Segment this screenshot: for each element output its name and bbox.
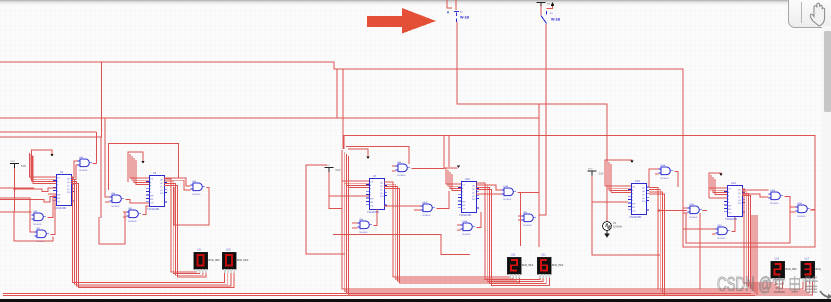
nand gate U8B (522, 212, 537, 227)
wire: U4 output bus down to display U9 (164, 179, 206, 277)
counter U13 74LS160 (628, 179, 649, 219)
wire: U14 input bus (left) (709, 175, 727, 198)
wire: U1 output bus down to display U10 (71, 177, 234, 288)
wire: right loop from U16B output down to hours carry (683, 210, 815, 247)
wire: U13 feedback loop with junction arrow (605, 160, 634, 186)
nand gate U6A (191, 180, 206, 196)
wire: group2 bus down joining long bottom bus to hours section (342, 156, 757, 295)
counter U7 74LS160 (366, 174, 387, 214)
wire: U11A connections (384, 191, 449, 210)
counter U1 74LS160 (53, 170, 74, 210)
wire: U8B connections (518, 216, 522, 220)
nand gate U16B (796, 203, 811, 218)
nand gate U5A (110, 192, 125, 208)
wire: left edge stub into gate U2A (0, 187, 34, 189)
wire: U7 input bus (left) (342, 150, 369, 188)
wire: loop below group 2 (333, 235, 470, 255)
wire: vertical drop x=337 (336, 69, 338, 118)
wire: long bottom bus (3, 293, 755, 295)
counter U4 74LS160 (146, 171, 167, 211)
switch S2 (SPDT) with actuation arrow (541, 2, 561, 24)
wire: U10 feedback loop with junction arrow (444, 136, 460, 168)
nand gate U12A (461, 220, 476, 236)
power VCC V2 (group 2) (306, 165, 369, 254)
display U17 (digit 3) (801, 258, 828, 283)
wire: U10 output bus down to display U12 (476, 183, 549, 286)
power VCC V1 (group 1) (10, 161, 26, 211)
counter U10 74LS160 (458, 177, 479, 217)
nand gate U3A (78, 156, 93, 172)
power VCC for switch S2 (537, 3, 551, 16)
wire: U15B connections (683, 208, 707, 289)
wire: U15C connections (712, 216, 735, 234)
nand gate U15B (688, 204, 703, 219)
wire: long horizontal net y=135.5 to far right gate (344, 136, 815, 211)
wire: U7 output bus down to display U11 (384, 182, 519, 283)
switch S1 (SPST key) (447, 0, 470, 22)
wire: U15A connections (649, 169, 678, 187)
wire: switch S2 output down to gate U8B (539, 24, 546, 215)
nand gate U15C (716, 225, 731, 240)
wire: U13 output bus down and right to display U17 (649, 187, 812, 294)
wire: U1 input bus (left) (30, 153, 57, 184)
wire: U4 output bus to gate U6A and loop (164, 178, 209, 225)
clock source V4 10Hz (603, 222, 623, 231)
wire: left edge stub into gate U2B (0, 198, 37, 232)
nand gate U15A (659, 164, 674, 180)
annotation: big red arrow (367, 8, 436, 34)
wire: U14 feedback loop with junction arrow (709, 173, 723, 198)
display U10 (digit 0) (222, 249, 249, 274)
power VCC V3 (group 4) (588, 169, 661, 256)
nand gate U16A (769, 189, 784, 205)
wire: U13 input bus (left) (605, 160, 631, 193)
wire: U14 output bus down to display U16 (742, 189, 782, 289)
nand gate U5B (127, 208, 142, 223)
nand gate U9A (358, 218, 373, 234)
wire: vertical drop x=101.5 from top net, to left horizontal (0, 62, 102, 218)
ground arrow for clock source (604, 231, 610, 238)
wire: U4 feedback loop with junction arrow (128, 152, 145, 182)
nand gate U2A (32, 210, 47, 226)
wire: U12A connections (457, 212, 481, 230)
wire: U16B connections (790, 207, 815, 212)
wire: switch S1 output down to clock select bus (457, 22, 607, 221)
wire: U4 input bus (left) (130, 154, 149, 185)
nand gate U2B (35, 228, 50, 243)
display U12 (digit 6) (537, 254, 564, 279)
wire: U5B connections (99, 206, 149, 244)
wire: feedback box around U4 (109, 144, 179, 191)
display U11 (digit 2) (507, 254, 534, 279)
wire: horizontal net y=118 (0, 117, 539, 119)
wire: U13A connections (476, 185, 539, 194)
display U9 (digit 0) (194, 249, 221, 274)
wire: junction feed to gate U15B (658, 209, 687, 211)
nand gate U8A (396, 161, 411, 177)
wire: vertical drop x=520 from U13A output (520, 193, 522, 246)
display U16 (digit 2) (771, 258, 798, 283)
wire: U9A connections (352, 209, 377, 228)
wire: U1 feedback loop with junction arrow (32, 150, 54, 181)
wire: vertical drop x=343 (342, 69, 344, 149)
wire: U1 lower input stubs (0, 188, 56, 212)
nand gate U11A (421, 201, 436, 217)
wire: U7 feedback loop with junction arrow (346, 147, 409, 164)
wire: vertical net x=539 (538, 104, 540, 247)
wire: U8A output (392, 166, 444, 171)
counter U14 74LS160 (724, 181, 745, 221)
wire: U5A connections (105, 118, 149, 203)
wire: U3A connections (0, 132, 97, 180)
wire: U16A connections (686, 190, 790, 243)
wire: main horizontal net top (y=63/69) with jog, to right vertical (0, 62, 714, 229)
wire: feedback box around U2A/U2B (14, 196, 56, 241)
wire: U10 input bus (left) (446, 168, 461, 191)
nand gate U13A (502, 185, 517, 201)
